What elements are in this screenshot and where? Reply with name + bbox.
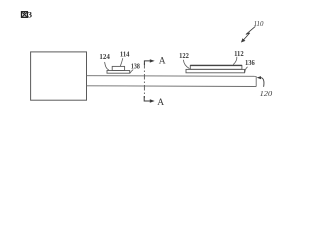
leader 136 bbox=[245, 67, 248, 73]
svg-text:138: 138 bbox=[131, 62, 140, 70]
figure title 図3 bbox=[22, 12, 28, 18]
right element upper slab 112 bbox=[190, 65, 242, 69]
leader 110 zigzag arrow bbox=[243, 26, 255, 40]
substrate bar 120: bottom line bbox=[87, 85, 257, 88]
svg-text:112: 112 bbox=[234, 50, 244, 58]
right element lower slab 122 bbox=[186, 69, 245, 72]
section arrow top bbox=[144, 61, 150, 65]
svg-text:114: 114 bbox=[120, 50, 130, 58]
leader 120 curved arrow bbox=[260, 78, 264, 87]
main box (component body) bbox=[31, 52, 87, 100]
left element pedestal 124 bbox=[107, 71, 130, 74]
left element top block 114 bbox=[112, 66, 124, 70]
svg-text:122: 122 bbox=[179, 52, 189, 60]
substrate bar 120: right end bbox=[255, 76, 257, 86]
leader 124 bbox=[105, 62, 109, 70]
leader 138 bbox=[130, 70, 133, 74]
substrate bar 120: top line bbox=[87, 75, 257, 78]
leader 114 bbox=[120, 58, 123, 66]
leader 122 bbox=[183, 60, 189, 69]
svg-text:124: 124 bbox=[99, 53, 110, 61]
svg-text:3: 3 bbox=[28, 10, 32, 20]
section arrow bottom bbox=[144, 96, 151, 101]
svg-text:120: 120 bbox=[260, 89, 273, 98]
svg-text:A: A bbox=[159, 57, 166, 67]
section line A-A bbox=[143, 63, 145, 98]
leader 112 bbox=[233, 57, 237, 65]
svg-text:136: 136 bbox=[245, 59, 255, 67]
svg-text:A: A bbox=[157, 98, 164, 108]
